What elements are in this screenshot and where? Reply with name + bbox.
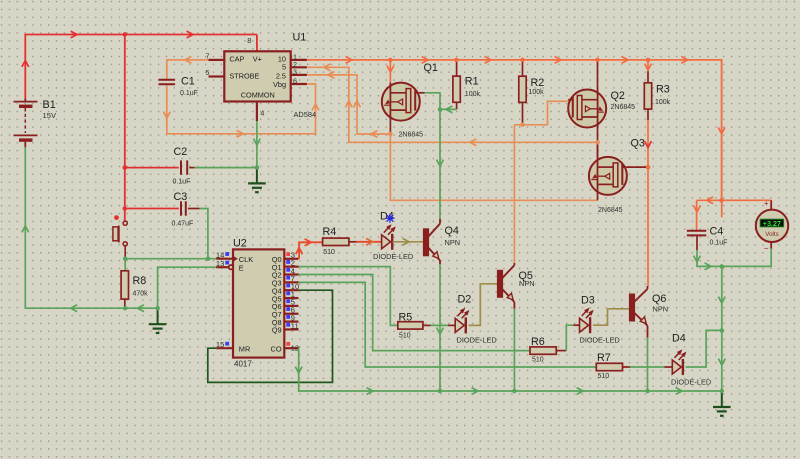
svg-text:R4: R4 [323, 226, 337, 238]
svg-text:R6: R6 [531, 336, 545, 348]
op-amp U1 AD584 body [224, 51, 290, 101]
svg-text:D2: D2 [458, 294, 472, 306]
junction C2 tap [123, 165, 127, 169]
U2 Q8 pin stub pin 9 [284, 321, 298, 323]
U1 pin 6 stub [291, 83, 307, 85]
wire Q4 collector lead [439, 219, 441, 224]
junction bottom rail right [720, 389, 724, 393]
svg-text:5: 5 [282, 62, 286, 71]
U1 pin 3 stub [291, 74, 307, 76]
transistor Q6 NPN [630, 294, 635, 321]
svg-text:U2: U2 [233, 238, 247, 250]
svg-text:100k: 100k [655, 99, 671, 106]
arrow C4 bottom right [705, 263, 711, 270]
junction C2-right / pin4 [255, 165, 259, 169]
junction rail Q4e top [438, 389, 442, 393]
arrow rail 3 [555, 57, 561, 64]
arrow on B1+ riser [22, 60, 29, 66]
arrow bottom rail 2 [472, 388, 478, 395]
arrow battery return left 1 [71, 305, 77, 312]
wire Q1 source to Q3 node [390, 134, 597, 200]
svg-text:Q3: Q3 [631, 138, 645, 150]
diode D4 LED bottom [672, 360, 681, 374]
junction voltmeter minus net [720, 264, 724, 268]
svg-text:3: 3 [293, 68, 297, 77]
wire rail to Q2 drain [597, 60, 599, 90]
junction C3 drop on CLK wire [206, 257, 210, 261]
svg-text:CAP: CAP [229, 55, 244, 64]
svg-text:7: 7 [206, 51, 210, 60]
svg-text:Q9: Q9 [272, 326, 282, 335]
U1 pin 2 stub [291, 66, 307, 68]
svg-text:DIODE-LED: DIODE-LED [373, 252, 413, 261]
junction rail Q1 top [388, 58, 392, 62]
transistor Q4 NPN [424, 229, 429, 256]
U1 pin 7 stub [209, 59, 225, 61]
svg-text:R5: R5 [399, 312, 413, 324]
voltmeter minus lead [770, 242, 772, 249]
junction voltmeter rail / top-rail drop [719, 198, 723, 202]
junction rail R3 [646, 58, 650, 62]
svg-text:C3: C3 [174, 191, 188, 203]
U2 MR pin stub pin 15 [216, 347, 233, 349]
junction pin2 node top [595, 140, 599, 144]
wire Q1 gate to R1/Q4 collector [425, 93, 441, 219]
svg-text:4017: 4017 [234, 360, 252, 369]
arrow D4 to Q4 [403, 238, 409, 245]
svg-text:STROBE: STROBE [229, 72, 259, 81]
svg-text:DIODE-LED: DIODE-LED [671, 378, 711, 387]
junction R8 node top [123, 306, 127, 310]
wire R2 node to Q2 gate and Q5 collector [514, 124, 547, 126]
junction rail gnd right top [720, 389, 724, 393]
arrow bottom rail 3 [577, 388, 583, 395]
svg-text:C4: C4 [710, 225, 724, 237]
ground U1 common [256, 167, 258, 183]
resistor R5 [398, 322, 423, 329]
wire C4 bottom lead [696, 235, 698, 250]
logic state square pin15 [225, 342, 229, 346]
U2 Q5 pin stub pin 1 [284, 297, 298, 299]
capacitor C3 [180, 201, 182, 215]
svg-text:0.1uF: 0.1uF [710, 239, 728, 246]
wire U2 E to ground net [158, 267, 217, 308]
junction C2 tap top [123, 165, 127, 169]
junction R1 node top [438, 107, 442, 111]
wire Q2 to R6 [299, 275, 531, 351]
wire red vertical to C2 C3 switch [124, 35, 126, 222]
wire R8 top lead [124, 259, 126, 271]
arrow Q4 emitter down [437, 328, 444, 334]
wire Q4 emitter lead [439, 261, 441, 265]
U1 pin 5 stub [209, 75, 225, 77]
svg-text:Vbg: Vbg [273, 80, 286, 89]
wire Q2 source lead to pin2 node [597, 127, 599, 142]
wire R1 bottom lead [456, 102, 458, 109]
arrow rail 4 [681, 57, 687, 64]
svg-text:8: 8 [247, 36, 251, 45]
arrow battery return up [22, 226, 29, 232]
svg-text:100k: 100k [465, 91, 481, 98]
wire D4 cathode to Q4 base [393, 241, 424, 243]
voltmeter display [760, 219, 783, 227]
U2 Q3 pin stub pin 7 [284, 281, 298, 283]
svg-text:C2: C2 [174, 146, 188, 158]
U2 Q0 pin stub pin 3 [284, 258, 298, 260]
svg-text:CO: CO [271, 345, 282, 354]
wire R8 bottom lead [124, 299, 126, 308]
switch SW1 [123, 221, 127, 225]
arrow rail 2 [485, 57, 491, 64]
wire Q3 gate lead [627, 166, 648, 168]
wire R3 bottom lead [647, 109, 649, 120]
svg-text:DIODE-LED: DIODE-LED [580, 336, 620, 345]
junction rail R1 top [454, 58, 458, 62]
wire Q3 to R7 [299, 282, 597, 367]
wire Q5 collector lead [513, 263, 515, 265]
svg-text:2N6845: 2N6845 [399, 132, 424, 139]
arrow ground drop 2 [718, 359, 725, 365]
wire U1 pin2 to Q2/Q3 node [307, 67, 598, 142]
junction Q3 gate node [646, 165, 650, 169]
svg-text:D4: D4 [672, 333, 686, 345]
junction pin2 net Q2 source [595, 140, 599, 144]
svg-text:R8: R8 [133, 275, 147, 287]
svg-text:5: 5 [206, 68, 210, 77]
svg-text:C1: C1 [181, 76, 195, 88]
U2 Q1 pin stub pin 2 [284, 266, 298, 268]
logic state square pin14 [225, 252, 229, 256]
arrow C4 bottom down [694, 256, 701, 262]
U2 E pin stub pin 13 with bubble [216, 266, 229, 268]
junction rail battery tap [123, 32, 127, 36]
U2 Q2 pin stub pin 4 [284, 273, 298, 275]
wire C3 left lead [125, 208, 179, 210]
svg-text:Q6: Q6 [652, 293, 666, 305]
svg-text:R2: R2 [531, 77, 545, 89]
junction vm minus top [720, 264, 724, 268]
resistor R2 [519, 76, 526, 102]
wire Q5 collector riser [513, 125, 515, 263]
junction rail Q1 [388, 58, 392, 62]
U2 Q7 pin stub pin 6 [284, 313, 298, 315]
junction gnd left top [155, 306, 159, 310]
arrow R4 out [366, 238, 372, 245]
wire C1 bottom to U1 pin6 loop [167, 84, 316, 134]
junction R8 bottom [123, 306, 127, 310]
wire Q1 gate lead [420, 92, 425, 94]
arrow pin4 wire down [254, 139, 261, 145]
resistor R3 [644, 83, 651, 109]
diode D2 LED [455, 318, 464, 332]
arrow C1 loop right [237, 130, 243, 137]
junction D4 return top [720, 328, 724, 332]
svg-text:U1: U1 [293, 32, 307, 44]
junction rail R2 top [520, 58, 524, 62]
U1 pin 1 stub [291, 59, 307, 61]
resistor R4 [323, 238, 349, 245]
svg-text:V+: V+ [253, 55, 262, 64]
wire U1 pin8 drop [256, 35, 258, 52]
arrow voltmeter rail left [707, 197, 713, 204]
U2 CO pin stub pin 12 [284, 347, 298, 349]
junction rail Q6e top [645, 389, 649, 393]
junction rail R3 top [646, 58, 650, 62]
arrow Q0 wire right [305, 239, 311, 246]
svg-text:510: 510 [399, 332, 411, 339]
svg-text:CLK: CLK [239, 255, 253, 264]
arrow rail 1b [422, 57, 428, 64]
svg-text:Q4: Q4 [445, 225, 459, 237]
wire D3 cathode to Q6 base [593, 309, 629, 325]
wire +ref top rail [307, 60, 722, 200]
arrow ground drop 1 [718, 297, 725, 303]
arrow R3 top down [645, 64, 652, 70]
diode D3 LED [580, 318, 589, 332]
wire C3 right lead to CLK net [188, 208, 200, 210]
wire Q0 to R4 [299, 242, 323, 258]
svg-text:Q1: Q1 [424, 62, 438, 74]
wire R1 top lead [456, 60, 458, 76]
arrow pin2 wire up [345, 101, 352, 107]
svg-text:E: E [239, 264, 244, 273]
junction Q1 source node [388, 132, 392, 136]
U2 CLK pin stub pin 14 [216, 258, 233, 260]
wire battery return [25, 147, 157, 308]
junction switch node top [123, 257, 127, 261]
battery B1 [24, 99, 26, 102]
logic state square pin13 [225, 261, 229, 265]
wire R6 to D3 anode [556, 350, 566, 352]
wire R2 bottom lead [522, 102, 524, 124]
junction R1 bottom node [438, 107, 442, 111]
wire R2 top lead [522, 60, 524, 76]
wire Q1 to R5 [299, 267, 398, 326]
U2 Q4 pin stub pin 10 [284, 289, 298, 291]
wire U1 pin7 to C1 top [167, 60, 209, 79]
wire Q5 emitter lead [513, 302, 515, 309]
junction rail Q2 top [595, 58, 599, 62]
wire Q6 emitter lead [647, 326, 649, 338]
junction Q3 gate top [646, 165, 650, 169]
arrow C4 branch down [694, 206, 701, 212]
wire Q2/Q3 interconnect [597, 142, 599, 157]
svg-text:NPN: NPN [653, 305, 669, 314]
arrow Q1 drain down [387, 66, 394, 72]
wire Q6 emitter to bottom rail [647, 338, 649, 392]
wire C2 right lead [189, 167, 194, 169]
svg-text:510: 510 [323, 249, 335, 256]
ground left rail [157, 308, 159, 324]
capacitor C1 [159, 79, 176, 81]
junction rail R1 [454, 58, 458, 62]
wire C2 left lead [125, 167, 179, 169]
svg-text:510: 510 [532, 357, 544, 364]
wire D4 cathode return [686, 330, 722, 367]
svg-text:2N6845: 2N6845 [611, 104, 636, 111]
svg-text:COMMON: COMMON [241, 91, 275, 100]
arrow R1 bottom left [446, 106, 452, 113]
wire CO down to bottom rail [299, 348, 722, 391]
junction D4 return [720, 328, 724, 332]
origin marker D4 [386, 214, 395, 223]
junction switch bottom [123, 257, 127, 261]
svg-text:NPN: NPN [519, 279, 535, 288]
junction rail Q5e top [512, 389, 516, 393]
arrow bottom rail 4 [676, 388, 682, 395]
wire stub below junction [721, 200, 723, 217]
transistor Q2 2N6845 [568, 90, 606, 128]
svg-text:AD584: AD584 [294, 110, 317, 119]
svg-text:15: 15 [216, 340, 224, 349]
arrow pin2 wire left2 [470, 139, 476, 146]
arrow pin3 wire left2 [371, 131, 377, 138]
resistor R8 [121, 271, 128, 299]
arrow pin3 wire left [328, 72, 334, 79]
junction rail Q2 [595, 58, 599, 62]
arrow Q3 drop down [645, 141, 652, 147]
junction CLK C3 node top [206, 257, 210, 261]
junction R2 bottom top [520, 123, 524, 127]
resistor R1 [453, 76, 460, 102]
junction Q6 emitter rail [645, 389, 649, 393]
svg-text:Volts: Volts [765, 231, 778, 238]
arrow rail 3b [622, 57, 628, 64]
svg-text:R1: R1 [465, 76, 479, 88]
junction Q4 emitter rail [438, 389, 442, 393]
wire Q5 emitter to bottom rail [513, 309, 515, 391]
arrow battery return left 2 [138, 305, 144, 312]
wire D2 cathode to Q5 base [469, 284, 498, 326]
wire R3 top lead [647, 60, 649, 71]
svg-text:D3: D3 [581, 295, 595, 307]
capacitor C4 [687, 230, 706, 232]
svg-text:6: 6 [293, 76, 297, 85]
junction top rail / C-branch [123, 32, 127, 36]
voltmeter body [756, 210, 788, 242]
svg-text:15V: 15V [43, 111, 57, 120]
junction R2 bottom [520, 123, 524, 127]
junction C3 tap [123, 206, 127, 210]
resistor R7 [596, 363, 622, 370]
wire ground drop right [721, 266, 723, 391]
wire R3 to Q3 gate node / Q6 collector [647, 120, 649, 286]
arrow rail 1 [346, 57, 352, 64]
junction ground left [155, 306, 159, 310]
ground right rail [721, 391, 723, 407]
diode D4 LED top row [382, 235, 391, 249]
transistor Q5 NPN [498, 270, 503, 297]
resistor R6 [530, 347, 556, 354]
capacitor C2 [180, 160, 182, 174]
arrow C1 loop down [163, 112, 170, 118]
svg-text:0.1uF: 0.1uF [180, 90, 198, 97]
svg-text:MR: MR [239, 345, 251, 354]
arrow gate net down [437, 160, 444, 166]
arrow C1 loop up [312, 104, 319, 110]
arrow pin2 wire left [324, 64, 330, 71]
wire switch to U2 CLK [125, 258, 216, 260]
wire Q6 collector lead [647, 286, 649, 289]
arrow CO wire down [295, 367, 302, 373]
svg-text:B1: B1 [43, 99, 56, 111]
wire U1 pin4 to ground node [256, 121, 258, 167]
logic state square pin12 [286, 342, 290, 346]
svg-text:0.1uF: 0.1uF [173, 179, 191, 186]
svg-text:+3.27: +3.27 [763, 219, 781, 228]
wire Q1 source lead [389, 121, 391, 134]
svg-text:Q2: Q2 [611, 90, 625, 102]
wire R1 to Q1 gate node [440, 108, 457, 110]
junction Q5 emitter rail [512, 389, 516, 393]
svg-text:R7: R7 [597, 352, 611, 364]
svg-text:13: 13 [216, 259, 224, 268]
wire voltmeter plus rail [697, 199, 772, 201]
svg-text:470k: 470k [133, 291, 149, 298]
arrow Q0 wire up [296, 248, 303, 254]
arrow bottom rail 1 [367, 388, 373, 395]
wire C4 to voltmeter minus [697, 248, 771, 266]
U1 pin 4 stub [256, 102, 258, 121]
junction Q1 source top [388, 132, 392, 136]
wire Q4 emitter to bottom rail [439, 264, 441, 391]
svg-text:4: 4 [260, 109, 264, 118]
transistor Q1 2N6845 [382, 83, 420, 121]
junction rail drop top [719, 198, 723, 202]
svg-text:+: + [764, 199, 769, 208]
wire R4 to D4 anode [349, 241, 357, 243]
svg-text:DIODE-LED: DIODE-LED [457, 336, 497, 345]
wire U1 pin3 to Q1 source [307, 75, 391, 134]
U2 Q6 pin stub pin 5 [284, 305, 298, 307]
arrow pin7 wire [185, 57, 191, 64]
svg-text:510: 510 [598, 373, 610, 380]
switch SW1 pole dot [114, 215, 119, 220]
svg-text:0.47uF: 0.47uF [172, 221, 194, 228]
arrow pin3 wire up [354, 101, 361, 107]
wire Q4 to MR reset loop [208, 290, 333, 382]
transistor Q3 2N6845 [589, 157, 627, 195]
wire battery+ to top rail [25, 35, 257, 100]
junction pin4 node top [255, 165, 259, 169]
wire Q3 source lead to voltmeter rail [597, 195, 599, 200]
svg-text:NPN: NPN [445, 238, 461, 247]
arrow on B1+ wire [71, 31, 77, 38]
svg-text:R3: R3 [656, 83, 670, 95]
wire rail to Q1 drain [389, 60, 391, 83]
junction C3 tap top [123, 206, 127, 210]
wire C4 top branch [696, 200, 698, 230]
wire R5 to D2 anode [423, 324, 431, 326]
svg-text:−: − [764, 244, 769, 253]
voltmeter plus lead [770, 200, 772, 209]
svg-text:11: 11 [291, 321, 299, 330]
junction rail R2 [520, 58, 524, 62]
counter U2 4017 body [233, 249, 284, 357]
arrow rail corner down [718, 127, 725, 133]
arrow on B1+ wire 2 [187, 31, 193, 38]
svg-text:100k: 100k [529, 89, 545, 96]
svg-text:2N6845: 2N6845 [598, 207, 623, 214]
U2 Q9 pin stub pin 11 [284, 328, 298, 330]
wire Q3 drain lead [597, 142, 599, 157]
wire R7 to D4 anode [623, 366, 631, 368]
